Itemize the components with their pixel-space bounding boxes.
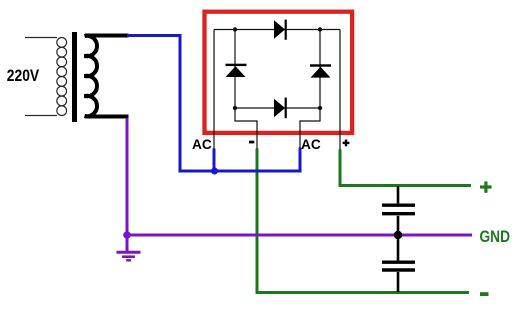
svg-text:AC: AC bbox=[192, 137, 212, 152]
svg-text:AC: AC bbox=[301, 137, 321, 152]
svg-text:220V: 220V bbox=[7, 66, 39, 85]
svg-text:GND: GND bbox=[480, 228, 511, 246]
